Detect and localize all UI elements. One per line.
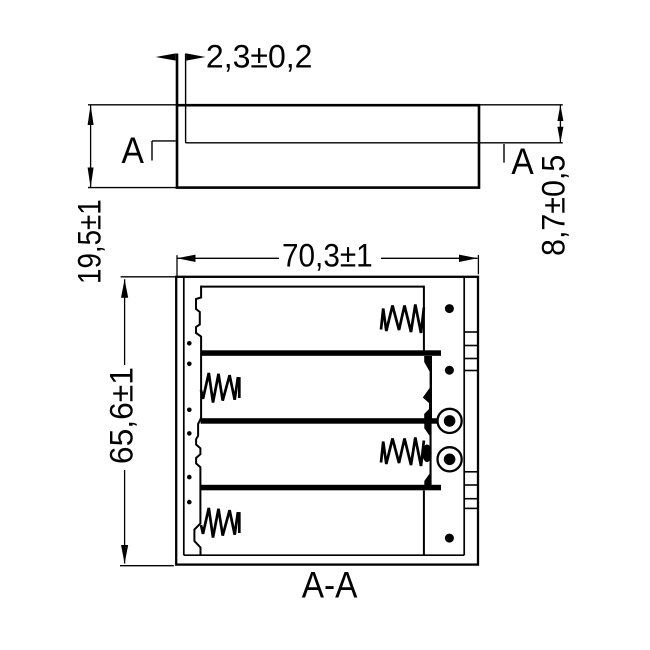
svg-text:65,6±1: 65,6±1 [103,367,139,464]
svg-text:A-A: A-A [302,565,358,606]
svg-text:19,5±1: 19,5±1 [71,199,107,284]
svg-text:8,7±0,5: 8,7±0,5 [536,155,572,256]
svg-text:A: A [511,141,534,182]
svg-text:2,3±0,2: 2,3±0,2 [206,38,313,74]
svg-text:70,3±1: 70,3±1 [282,237,373,273]
svg-text:A: A [122,130,145,171]
